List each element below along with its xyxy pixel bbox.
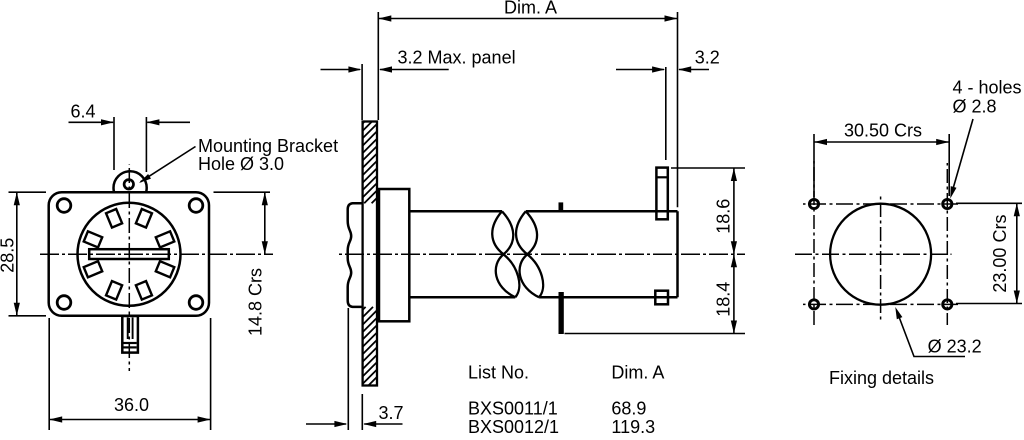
18.4 dimension line and arrows: [733, 254, 735, 333]
contact slot at 157.5 deg: [84, 261, 103, 277]
svg-text:Hole Ø 3.0: Hole Ø 3.0: [198, 154, 284, 174]
svg-text:68.9: 68.9: [611, 399, 646, 419]
rotary switch circular body outline: [78, 203, 181, 306]
dimension 6.4 line and arrows: [69, 121, 114, 123]
svg-text:Dim. A: Dim. A: [611, 363, 664, 383]
flange corner hole 2: [189, 199, 203, 213]
23.00 Crs extension lines: [956, 202, 1022, 204]
flange corner hole 1: [57, 199, 71, 213]
3.7 extension lines: [347, 308, 349, 430]
flange corner hole 4: [189, 296, 203, 310]
dimension 28.5 extension lines: [9, 191, 47, 193]
front bush with broken (wavy) end: [348, 203, 363, 307]
panel cross-section (hatched): [363, 122, 377, 386]
vertical centerline of front view: [128, 164, 130, 371]
right holes vertical centerline: [946, 163, 948, 325]
dimension 28.5 line and arrows: [16, 192, 18, 316]
terminal tab at rear (bottom, small square): [655, 291, 668, 305]
contact slot at 202.5 deg: [84, 231, 103, 247]
fixing hole 1 dia 2.8: [809, 199, 818, 208]
left holes vertical centerline: [813, 161, 815, 325]
cut-out horizontal centerline: [792, 253, 952, 255]
18.6 dimension line and arrows: [733, 168, 735, 254]
fixing hole 3 dia 2.8: [809, 300, 818, 309]
tube break symbol (left S-curves): [492, 211, 515, 297]
svg-text:List No.: List No.: [468, 363, 529, 383]
18.4 bottom extension line: [565, 333, 746, 335]
svg-text:4 - holes: 4 - holes: [953, 77, 1022, 97]
svg-text:Ø 23.2: Ø 23.2: [928, 336, 982, 356]
3.2 rear dimension extension line: [665, 67, 667, 160]
svg-text:Mounting Bracket: Mounting Bracket: [198, 136, 338, 156]
terminal tab at rear (top): [656, 168, 667, 220]
contact slot at 292.5 deg: [136, 209, 152, 228]
svg-text:3.7: 3.7: [379, 403, 404, 423]
Dim. A dimension line and arrows: [378, 18, 677, 20]
svg-text:Dim. A: Dim. A: [504, 0, 557, 18]
flange, side view: [379, 189, 409, 321]
panel hatching (upper): [363, 122, 365, 124]
contact slot at 112.5 deg: [106, 281, 122, 300]
svg-text:28.5: 28.5: [0, 238, 18, 273]
fixing hole 4 dia 2.8: [943, 300, 952, 309]
23.00 Crs dimension line and arrows: [1016, 203, 1018, 303]
cut-out vertical centerline: [880, 193, 882, 321]
dimension 36.0 line and arrows: [49, 419, 210, 421]
dimension 6.4 extension lines: [113, 117, 115, 170]
svg-text:3.2 Max. panel: 3.2 Max. panel: [398, 48, 516, 68]
svg-text:36.0: 36.0: [114, 395, 149, 415]
horizontal actuator slot bar: [89, 249, 169, 259]
svg-text:14.8 Crs: 14.8 Crs: [246, 268, 266, 336]
svg-text:BXS0012/1: BXS0012/1: [468, 417, 559, 437]
body tube bottom line (left of break): [409, 296, 515, 299]
panel cut-out circle dia 23.2: [830, 204, 931, 305]
tube break symbol (right S-curves): [516, 211, 539, 297]
mounting bracket hole dia 3.0: [124, 180, 133, 189]
lower solder tag (edge-on, long): [559, 292, 564, 334]
contact slot at 247.5 deg: [106, 209, 122, 228]
bottom holes horizontal centerline: [803, 303, 958, 305]
fixing hole 2 dia 2.8: [943, 199, 952, 208]
square mounting flange, front view: [49, 192, 209, 316]
svg-text:30.50 Crs: 30.50 Crs: [844, 120, 922, 140]
leader to fixing hole: [952, 119, 974, 194]
upper solder tag (edge-on): [559, 202, 564, 211]
contact slot at 67.5 deg: [136, 281, 152, 300]
leader line to mounting bracket hole: [141, 147, 196, 182]
18.6 top extension line: [671, 167, 745, 169]
body tube top line (left of break): [409, 210, 502, 213]
30.50 Crs extension lines: [813, 134, 815, 197]
30.50 Crs dimension line and arrows: [814, 141, 949, 143]
3.2 Max. panel extension line: [361, 64, 363, 120]
3.7 dimension line and arrows: [306, 423, 346, 425]
leader to cut-out circle: [897, 311, 965, 357]
Dim. A extension lines: [377, 12, 379, 120]
contact slot at 337.5 deg: [156, 231, 175, 247]
body tube top line (right of break): [526, 210, 678, 213]
flange corner hole 3: [57, 296, 71, 310]
svg-text:18.4: 18.4: [714, 282, 734, 317]
terminal inner slot lines: [127, 318, 129, 340]
svg-text:BXS0011/1: BXS0011/1: [468, 399, 558, 419]
svg-text:Ø 2.8: Ø 2.8: [953, 96, 997, 116]
svg-text:3.2: 3.2: [695, 48, 720, 68]
bottom terminal shank: [122, 316, 138, 353]
svg-text:Fixing details: Fixing details: [829, 368, 934, 388]
svg-text:23.00 Crs: 23.00 Crs: [990, 215, 1010, 293]
dimension 36.0 extension lines: [48, 318, 50, 430]
top holes horizontal centerline: [803, 203, 958, 205]
dimension 14.8 Crs top extension line: [214, 191, 271, 193]
contact slot at 22.5 deg: [156, 261, 175, 277]
svg-text:119.3: 119.3: [611, 417, 655, 437]
dimension 14.8 Crs line and arrows: [264, 192, 266, 254]
side view horizontal centerline: [337, 253, 745, 255]
body tube bottom line (right of break): [539, 296, 677, 299]
3.2 rear dimension line and arrows: [616, 69, 664, 71]
svg-text:18.6: 18.6: [714, 199, 734, 234]
body right end cap: [676, 211, 679, 297]
svg-text:6.4: 6.4: [71, 102, 96, 122]
terminal crimp bands: [124, 342, 137, 344]
3.2 Max. panel dimension line and arrows: [321, 69, 361, 71]
panel hatching (lower): [363, 307, 366, 310]
horizontal centerline of front view: [40, 253, 273, 255]
